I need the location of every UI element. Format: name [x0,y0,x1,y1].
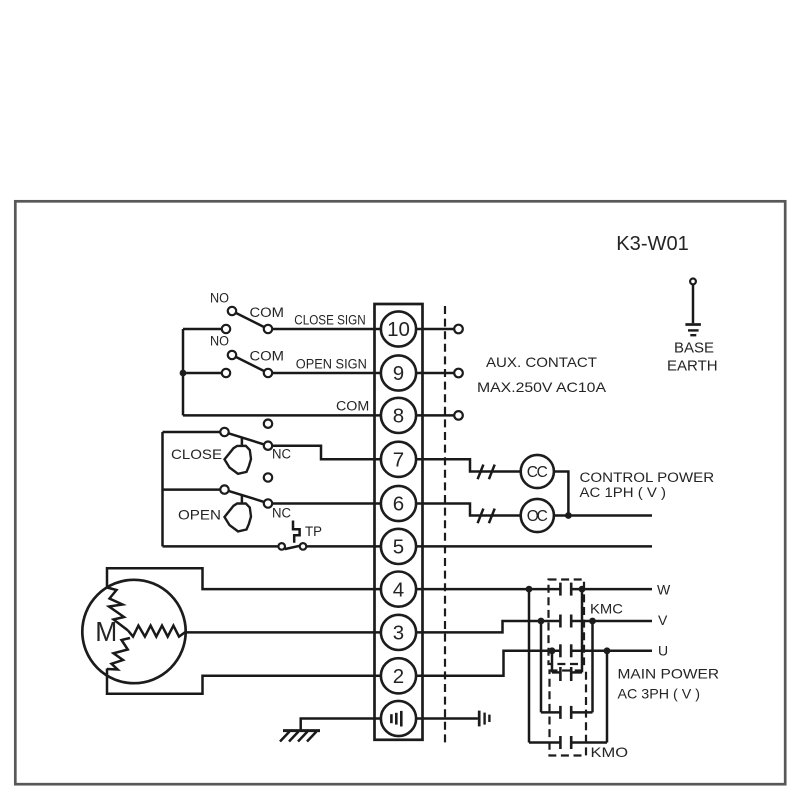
svg-text:6: 6 [393,493,404,516]
svg-text:OPEN SIGN: OPEN SIGN [296,356,367,371]
svg-text:5: 5 [393,536,404,559]
svg-text:3: 3 [393,622,404,645]
svg-text:CC: CC [527,464,548,481]
svg-text:BASE: BASE [674,339,714,356]
svg-text:4: 4 [393,578,404,601]
svg-text:CLOSE: CLOSE [171,446,222,462]
svg-text:NO: NO [210,334,229,349]
svg-text:OPEN: OPEN [178,507,221,523]
svg-text:TP: TP [305,524,322,539]
svg-text:7: 7 [393,449,404,472]
svg-text:9: 9 [393,362,404,385]
svg-text:K3-W01: K3-W01 [616,232,689,255]
svg-text:KMO: KMO [591,744,629,760]
svg-text:M: M [95,616,117,647]
svg-text:COM: COM [250,305,285,320]
svg-text:AUX. CONTACT: AUX. CONTACT [486,354,597,370]
svg-text:8: 8 [393,405,404,428]
svg-text:2: 2 [393,665,404,688]
svg-text:NO: NO [210,291,229,306]
svg-text:AC 3PH ( V ): AC 3PH ( V ) [618,686,701,702]
svg-text:COM: COM [250,349,285,364]
svg-text:AC 1PH ( V ): AC 1PH ( V ) [580,485,667,500]
svg-text:CONTROL POWER: CONTROL POWER [580,470,715,485]
svg-text:MAIN POWER: MAIN POWER [618,666,720,682]
svg-text:NC: NC [272,506,291,521]
svg-text:10: 10 [387,318,410,341]
svg-text:MAX.250V AC10A: MAX.250V AC10A [477,379,607,395]
svg-text:EARTH: EARTH [667,357,718,374]
svg-text:V: V [658,612,668,628]
svg-text:KMC: KMC [590,601,623,617]
svg-text:OC: OC [527,508,548,525]
svg-text:W: W [657,581,671,597]
svg-text:COM: COM [336,398,369,413]
svg-text:NC: NC [272,446,291,461]
svg-text:CLOSE SIGN: CLOSE SIGN [294,312,365,327]
svg-text:U: U [658,642,668,658]
